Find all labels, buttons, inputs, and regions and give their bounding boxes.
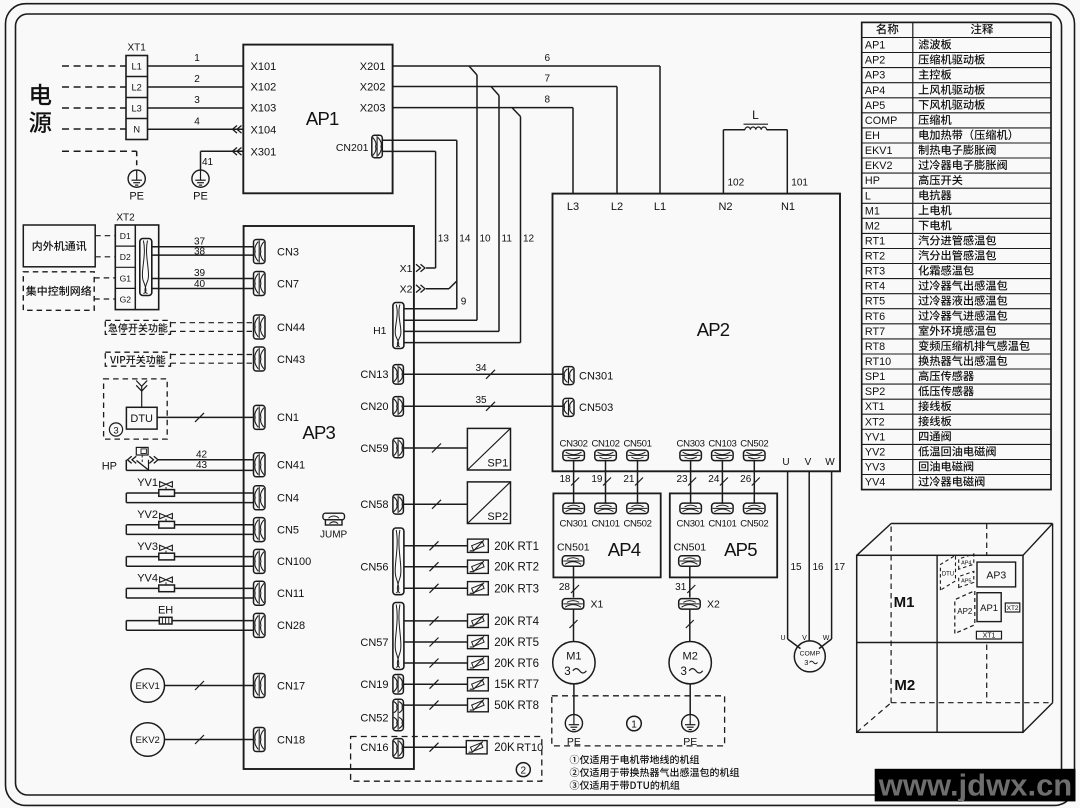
svg-text:JUMP: JUMP [320,530,348,541]
unit part XT2 [1005,603,1020,612]
pin X2 on AP3 [400,281,457,296]
svg-text:CN13: CN13 [360,369,388,381]
svg-text:CN101: CN101 [708,518,736,529]
svg-text:RT3: RT3 [518,583,540,595]
svg-text:CN11: CN11 [277,588,304,600]
svg-text:CN57: CN57 [360,637,388,649]
svg-text:CN7: CN7 [277,278,299,290]
svg-text:CN301: CN301 [677,518,705,529]
svg-text:CN17: CN17 [277,680,305,692]
dashed wire to CN44 pin1 [171,322,254,324]
connector CN57 [360,603,404,670]
svg-text:W: W [823,635,830,642]
svg-text:XT2: XT2 [1007,605,1019,612]
svg-text:6: 6 [545,53,551,64]
wire 34 [404,363,563,379]
svg-text:AP1: AP1 [865,40,885,52]
wire 10 branch [404,66,491,320]
wire 43 [126,460,253,471]
svg-text:X301: X301 [251,146,277,158]
svg-text:L1: L1 [132,62,142,72]
svg-text:X103: X103 [251,103,277,115]
legend row AP5 [865,99,985,111]
connector CN11 [254,581,305,605]
motor M1 [553,642,595,684]
wire 16 [809,471,824,641]
legend row YV2 [865,446,996,458]
wire M2 to PE [689,684,691,715]
connector CN58 [360,495,403,514]
unit part XT1 [976,631,1001,639]
connector CN101 (AP5) [708,503,736,529]
pin X102 [251,82,277,94]
svg-text:RT1: RT1 [518,541,540,553]
svg-text:39: 39 [194,268,206,279]
svg-text:AP4: AP4 [865,85,885,97]
svg-text:CN101: CN101 [591,518,619,529]
svg-text:20K: 20K [494,742,515,754]
svg-text:CN102: CN102 [591,438,619,449]
connector CN103 (AP2) [708,438,736,460]
svg-text:RT1: RT1 [865,236,885,248]
connector CN5 [254,518,300,542]
unit part AP3 [977,562,1016,587]
legend row RT5 [865,295,1007,308]
compressor COMP [794,641,825,672]
svg-text:3: 3 [194,95,200,106]
svg-text:CN302: CN302 [560,438,588,449]
svg-text:2: 2 [194,74,200,85]
wire EKV1 to CN17 [165,681,254,690]
node w [823,635,830,642]
svg-text:42: 42 [196,449,208,460]
ground PE (M2) [682,715,699,748]
svg-text:RT8: RT8 [865,341,885,353]
wire 4 [148,116,244,133]
wire CN58 to SP2 [404,500,467,509]
legend row RT10 [865,355,1007,368]
svg-text:YV4: YV4 [865,477,885,489]
legend row SP2 [865,386,974,398]
svg-text:M2: M2 [894,677,915,694]
connector CN56 [360,528,404,595]
sensor SP2 [467,482,510,524]
svg-text:CN19: CN19 [360,679,388,691]
wire 40 [152,279,254,290]
board AP2 [553,194,841,472]
svg-text:H1: H1 [373,325,387,337]
svg-text:YV2: YV2 [137,509,158,521]
svg-text:50K: 50K [494,700,515,712]
svg-text:M1: M1 [865,205,880,217]
wire 101 [791,178,808,189]
svg-text:1: 1 [631,720,637,731]
svg-text:L: L [865,190,871,202]
box 急停开关功能 [105,320,170,334]
module DTU [126,407,157,429]
dashed supply line L2 [62,86,126,88]
option box 1 [552,696,725,746]
svg-text:15: 15 [791,562,803,573]
svg-text:G1: G1 [120,273,132,283]
wire 31 [675,566,695,597]
svg-text:3: 3 [113,425,118,436]
wire 13 [383,151,450,268]
wire X1 to M1 [570,609,578,641]
svg-text:18: 18 [559,474,571,485]
svg-text:XT1: XT1 [983,633,996,640]
legend row SP1 [865,371,974,384]
svg-text:AP4: AP4 [608,539,641,560]
thermistor RT4 [404,614,540,628]
svg-text:D1: D1 [120,231,131,241]
svg-text:AP5: AP5 [724,539,757,560]
connector CN3 [254,240,300,264]
svg-text:41: 41 [202,157,214,168]
legend row COMP [865,114,952,127]
legend row EKV2 [865,160,1007,172]
svg-text:YV4: YV4 [137,573,158,585]
wire 39 [152,268,254,279]
connector CN301 (AP5) [677,503,705,529]
svg-text:SP2: SP2 [487,511,508,523]
svg-text:SP2: SP2 [865,386,885,398]
thermistor RT5 [404,635,539,649]
wire EKV2 to CN18 [165,735,254,744]
svg-text:CN502: CN502 [623,518,651,529]
node U [782,457,789,468]
wire 15 [788,471,802,648]
svg-text:40: 40 [194,279,206,290]
svg-text:34: 34 [475,363,487,374]
unit outline top [857,524,1053,556]
svg-text:AP1: AP1 [980,603,998,614]
svg-text:N1: N1 [781,201,795,213]
svg-text:M1: M1 [894,594,915,611]
svg-text:X102: X102 [251,82,277,94]
svg-text:14: 14 [459,234,471,245]
wire 3 [148,95,244,108]
legend row AP3 [865,69,951,81]
box 集中控制网络 [23,272,94,311]
pin X1 on AP3 [400,263,436,275]
svg-text:23: 23 [676,474,688,485]
wire 11 branch [404,87,512,332]
thermistor RT8 [404,699,539,713]
ground PE (supply) [128,170,145,202]
svg-text:CN16: CN16 [360,742,388,754]
connector CN1 [254,405,300,429]
wire 18 [559,461,579,503]
connector CN18 [254,728,306,752]
svg-text:RT7: RT7 [518,679,540,691]
svg-text:RT6: RT6 [865,311,885,323]
svg-text:EKV1: EKV1 [865,145,893,157]
svg-text:24: 24 [708,474,720,485]
board AP1 [243,45,392,194]
pin X202 [360,82,386,94]
connector CN501 (AP5) [673,542,706,567]
svg-text:EKV2: EKV2 [136,735,160,746]
footnote 1 [570,755,699,764]
connector CN7 [254,272,300,296]
svg-text:X201: X201 [360,61,386,73]
svg-text:L1: L1 [654,201,666,213]
connector CN302 (AP2) [560,438,588,460]
svg-text:U: U [782,457,789,468]
connector CN502 (AP4) [623,503,651,529]
svg-text:CN28: CN28 [277,620,305,632]
svg-text:DTU: DTU [130,413,153,425]
svg-text:AP3: AP3 [986,569,1006,581]
svg-text:AP2: AP2 [957,607,973,616]
thermistor RT1 [404,539,539,553]
svg-text:YV1: YV1 [865,431,885,443]
wire CN59 to SP1 [404,444,467,453]
svg-text:28: 28 [559,582,571,593]
terminal block XT2 [115,225,158,310]
wire 14 [383,140,471,281]
legend row RT6 [865,310,1007,323]
footnote 3 [570,780,680,789]
valve EKV2 [131,723,165,757]
svg-text:XT1: XT1 [865,401,885,413]
svg-text:W: W [825,457,835,468]
wire X2 to M2 [686,609,694,641]
svg-text:19: 19 [591,474,603,485]
svg-text:CN59: CN59 [360,443,388,455]
thermistor RT3 [404,582,539,596]
wire 8 [393,95,573,194]
connector CN20 [360,397,403,417]
svg-text:X1: X1 [400,263,413,275]
legend row AP4 [865,84,985,96]
svg-text:RT4: RT4 [518,616,540,628]
connector CN16 [360,739,403,759]
connector CN303 (AP2) [677,438,705,460]
terminal block XT1 [126,56,148,140]
thermistor RT6 [404,656,539,670]
svg-text:10: 10 [480,234,492,245]
connector X2 [679,599,720,611]
svg-text:1: 1 [194,53,200,64]
svg-text:HP: HP [102,460,117,472]
svg-text:AP4: AP4 [961,561,971,567]
wire 23 [676,461,696,503]
dashed supply line L1 [62,65,126,67]
pin X201 [360,61,386,73]
svg-text:XT2: XT2 [116,213,135,224]
connector CN301 (AP2) [563,367,613,385]
svg-text:YV3: YV3 [865,462,885,474]
module DTU enclosure [104,379,168,439]
thermistor RT2 [404,560,539,574]
svg-text:CN3: CN3 [277,246,299,258]
legend row AP2 [865,54,985,67]
dashed wire to CN43 pin2 [171,362,254,364]
svg-text:13: 13 [438,234,450,245]
svg-text:17: 17 [834,562,846,573]
svg-text:43: 43 [196,460,208,471]
jumper JUMP [320,513,348,540]
connector CN301 (AP4) [560,503,588,529]
svg-text:CN5: CN5 [277,524,299,536]
svg-text:AP5: AP5 [865,100,885,112]
svg-text:21: 21 [623,474,635,485]
board AP5 [670,493,777,577]
svg-text:CN501: CN501 [673,542,706,554]
legend row RT4 [865,280,1007,293]
dashed wire to CN44 pin2 [171,330,254,332]
legend row EKV1 [865,145,996,157]
svg-text:AP2: AP2 [865,55,885,67]
wire DTU to CN1 [157,413,253,422]
svg-text:L3: L3 [567,201,579,213]
legend row YV4 [865,476,985,488]
svg-text:AP5: AP5 [961,578,971,584]
svg-text:CN100: CN100 [277,556,311,568]
antenna [136,381,147,408]
wire 9 [404,281,467,309]
svg-text:RT6: RT6 [518,658,540,670]
svg-text:AP1: AP1 [306,108,339,129]
unit hidden partition [986,524,988,703]
svg-text:4: 4 [194,116,200,127]
svg-text:CN56: CN56 [360,561,388,573]
pin X101 [251,61,277,73]
wire 1 [148,53,244,66]
svg-text:X1: X1 [591,599,604,611]
node L2 [611,201,623,213]
connector CN503 [563,398,613,416]
svg-text:EKV2: EKV2 [865,160,893,172]
svg-text:101: 101 [791,178,808,189]
svg-text:RT2: RT2 [518,562,540,574]
svg-text:2: 2 [521,766,527,777]
svg-text:X104: X104 [251,124,277,136]
dashed supply line N [62,128,126,130]
svg-text:X2: X2 [707,599,720,611]
unit part AP4 [959,554,974,569]
dashed earth line [62,151,137,169]
dashed line to D2 [95,256,115,258]
box VIP开关功能 [105,352,170,366]
wire 17 [819,471,846,648]
legend row RT2 [865,250,996,263]
connector CN43 [254,347,306,371]
svg-text:L2: L2 [132,83,142,93]
node v [802,635,807,642]
node L1 [654,201,666,213]
wire 26 [740,461,760,503]
terminal block XT1 label [128,43,147,54]
legend row RT8 [865,340,1030,353]
thermistor RT10 [404,741,543,755]
connector CN4 [254,486,300,510]
connector CN41 [254,453,306,477]
connector CN17 [254,674,306,698]
wire 102 [728,178,745,189]
legend row EH [865,129,1011,142]
pin X104 [251,124,277,136]
dashed supply line L3 [62,107,126,109]
svg-text:RT7: RT7 [865,326,885,338]
svg-text:HP: HP [865,175,880,187]
svg-text:PE: PE [193,191,208,203]
wire 38 [152,246,254,257]
svg-text:L3: L3 [132,104,142,114]
svg-text:20K: 20K [494,637,515,649]
svg-text:CN103: CN103 [708,438,736,449]
wire 21 [623,461,643,503]
wire 24 [708,461,728,503]
svg-text:V: V [805,457,812,468]
valve EKV1 [131,669,165,703]
connector CN13 [360,365,403,385]
connector CN102 (AP2) [591,438,619,460]
legend row YV3 [865,461,973,473]
svg-text:CN501: CN501 [557,542,590,554]
svg-text:XT1: XT1 [128,43,147,54]
wire 12 branch [404,108,535,343]
svg-text:102: 102 [728,178,745,189]
connector CN100 [254,549,312,573]
unit dividers [857,555,1023,732]
svg-text:20K: 20K [494,562,515,574]
svg-text:YV1: YV1 [137,477,158,489]
unit hidden edges [857,527,1053,733]
legend row L [865,190,952,203]
board AP3 [244,226,414,769]
svg-text:CN502: CN502 [740,438,768,449]
svg-text:AP2: AP2 [697,319,730,340]
legend row YV1 [865,431,951,443]
legend header [876,24,993,35]
svg-text:20K: 20K [494,616,515,628]
svg-text:RT2: RT2 [865,251,885,263]
compartment M2 [894,677,915,694]
svg-text:CN52: CN52 [360,712,388,724]
svg-text:CN301: CN301 [560,518,588,529]
wire 28 [559,566,579,597]
svg-text:RT10: RT10 [865,356,891,368]
terminal block XT2 label [116,213,135,224]
label power source 电源 [29,84,51,133]
node V [805,457,812,468]
svg-text:CN4: CN4 [277,493,299,505]
unit part AP5 [959,571,974,587]
wire 7 [393,74,617,194]
svg-text:11: 11 [502,234,513,245]
svg-text:CN502: CN502 [740,518,768,529]
svg-text:XT2: XT2 [865,416,885,428]
svg-text:X2: X2 [400,284,413,296]
svg-text:CN44: CN44 [277,322,305,334]
unit part AP1 [977,593,1001,622]
svg-text:31: 31 [675,582,687,593]
connector H1 [373,303,404,349]
node N2 [718,201,732,213]
svg-text:12: 12 [523,234,535,245]
valve YV4 [126,573,253,598]
svg-text:3: 3 [564,666,570,678]
svg-text:RT4: RT4 [865,281,885,293]
wire 41 to PE [201,148,244,171]
svg-text:www.jdwx.cn: www.jdwx.cn [878,768,1073,803]
svg-text:EKV1: EKV1 [136,681,160,692]
svg-text:20K: 20K [494,658,515,670]
node u [780,635,785,642]
